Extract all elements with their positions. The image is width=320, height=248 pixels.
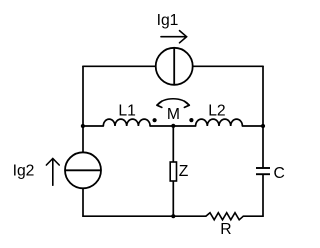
current direction arrow for Ig1	[161, 31, 187, 43]
polarity dot of L1	[153, 118, 157, 122]
junction node D (Z branch / bottom rail)	[171, 214, 175, 218]
wire right rail upper (top-right corner to capacitor C top plate)	[262, 66, 264, 167]
wire right rail lower (capacitor C bottom plate to bottom rail)	[262, 175, 264, 216]
wire bottom-right segment (resistor R to bottom-right corner)	[243, 215, 263, 217]
current source Ig2	[65, 152, 101, 188]
wire bottom-left segment (bottom rail to resistor R)	[83, 215, 206, 217]
wire middle rail center (L1 to L2 through node B)	[150, 125, 196, 127]
mutual coupling arc arrowhead right	[184, 101, 189, 107]
mutual coupling arc M	[157, 99, 189, 105]
junction node C (middle rail / right rail)	[261, 124, 265, 128]
svg-text:L1: L1	[118, 102, 135, 119]
svg-text:Ig2: Ig2	[13, 162, 35, 179]
wire left rail bottom (Ig2 bottom terminal to bottom-left corner)	[82, 188, 84, 216]
svg-text:Z: Z	[179, 163, 189, 180]
wire left rail upper (top-left corner down to node A)	[82, 66, 84, 126]
current direction arrow for Ig2	[46, 159, 59, 186]
capacitor C bottom plate	[256, 173, 270, 175]
mutual coupling arc arrowhead left	[157, 101, 162, 107]
resistor R	[206, 213, 244, 220]
svg-text:L2: L2	[208, 102, 225, 119]
junction node A (left rail / middle rail)	[81, 124, 85, 128]
current source Ig1	[156, 48, 193, 85]
capacitor C top plate	[256, 167, 270, 169]
svg-text:R: R	[220, 221, 231, 238]
impedance Z	[170, 162, 176, 181]
junction node B (middle rail / Z branch)	[171, 124, 175, 128]
inductor L1	[103, 119, 150, 126]
svg-text:Ig1: Ig1	[157, 12, 179, 29]
wire middle branch upper (node B down to impedance Z)	[172, 126, 174, 162]
polarity dot of L2	[189, 118, 193, 122]
inductor L2	[196, 119, 243, 126]
wire middle rail left stub (node A to inductor L1)	[83, 125, 103, 127]
wire middle branch lower (impedance Z to node D on bottom rail)	[172, 181, 174, 216]
svg-text:M: M	[167, 106, 180, 123]
wire top-right segment (Ig1 right terminal to right rail)	[193, 65, 263, 67]
wire top-left segment (top rail to Ig1 left terminal)	[83, 65, 156, 67]
wire middle rail right stub (L2 to node C)	[242, 125, 263, 127]
svg-text:C: C	[274, 165, 285, 182]
wire left rail lower (node A down to Ig2 top terminal)	[82, 126, 84, 152]
